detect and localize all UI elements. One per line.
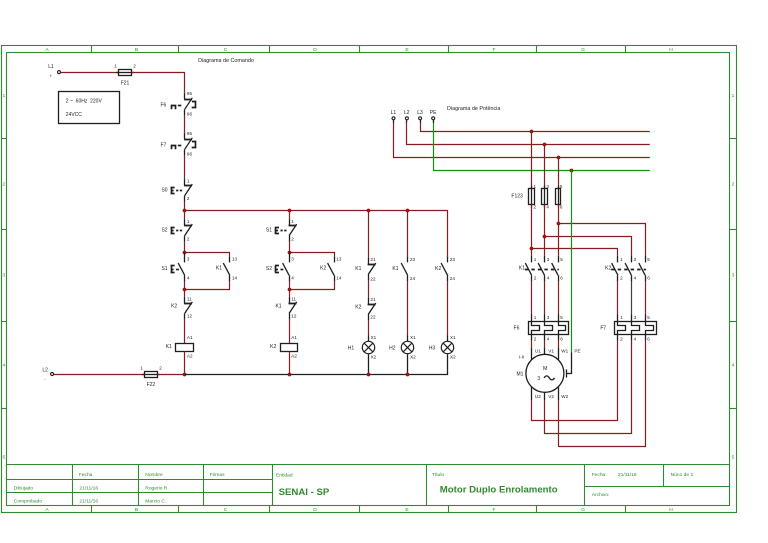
contact K2 13-14 xyxy=(320,256,342,281)
section title: Diagrama de Potencia xyxy=(447,106,500,112)
svg-text:1: 1 xyxy=(114,64,117,69)
wire parallel top xyxy=(185,253,230,257)
svg-text:Dibujado: Dibujado xyxy=(14,485,34,491)
svg-text:13: 13 xyxy=(232,257,238,262)
junction S1/K1-14 bottom xyxy=(183,288,187,292)
svg-text:F21: F21 xyxy=(121,80,130,86)
svg-text:5: 5 xyxy=(647,315,650,320)
contact K1 21-22 (NC) xyxy=(355,257,376,282)
contactor K2 poles 1-6 xyxy=(605,256,650,282)
junction bus/H2-branch xyxy=(406,209,410,213)
wire parallel bottom xyxy=(185,282,230,290)
svg-text:A2: A2 xyxy=(291,353,297,358)
junction fuse5/K2 branch xyxy=(557,222,561,226)
pushbutton S0 (NC) xyxy=(161,179,192,202)
svg-text:24: 24 xyxy=(450,276,456,281)
svg-text:3: 3 xyxy=(634,315,637,320)
svg-text:L1: L1 xyxy=(48,64,54,70)
wire W2 to F7 pin6 xyxy=(559,335,646,447)
svg-text:V1: V1 xyxy=(548,349,554,354)
svg-text:Entidad: Entidad xyxy=(276,472,293,478)
svg-text:5: 5 xyxy=(647,257,650,262)
svg-text:23: 23 xyxy=(450,257,456,262)
wire F21 to F6 xyxy=(132,73,185,93)
svg-text:S1: S1 xyxy=(266,227,272,233)
svg-text:X2: X2 xyxy=(450,354,456,359)
svg-text:Título: Título xyxy=(432,472,445,478)
svg-text:3: 3 xyxy=(291,257,294,262)
svg-text:12: 12 xyxy=(291,313,297,318)
wire bus to S2 xyxy=(184,210,186,219)
svg-text:K2: K2 xyxy=(320,266,326,272)
wire L2 to F22 xyxy=(54,374,144,376)
voltage info box xyxy=(59,92,120,124)
svg-text:K1: K1 xyxy=(166,344,172,350)
svg-text:3: 3 xyxy=(546,184,549,189)
wire rails to F123 xyxy=(532,131,559,189)
svg-text:3: 3 xyxy=(634,257,637,262)
svg-text:1: 1 xyxy=(534,315,537,320)
svg-text:1: 1 xyxy=(187,179,190,184)
terminal L2 xyxy=(42,367,53,382)
svg-text:L2: L2 xyxy=(42,367,48,373)
contact K1 11-12 (NC interlock) xyxy=(275,297,296,320)
svg-text:4: 4 xyxy=(547,337,550,342)
fuse block F123 xyxy=(511,184,563,210)
svg-text:V2: V2 xyxy=(548,394,554,399)
svg-text:1: 1 xyxy=(732,93,735,99)
junction L1/fuse5 xyxy=(557,156,561,160)
svg-text:I-II: I-II xyxy=(519,354,524,359)
wire H2 to rail xyxy=(407,354,409,374)
svg-text:K1: K1 xyxy=(355,266,361,272)
svg-text:21/11/16: 21/11/16 xyxy=(79,499,98,505)
svg-text:X2: X2 xyxy=(410,354,416,359)
wire K2-12 to coil K1 xyxy=(184,320,186,344)
wire L2 rail xyxy=(185,354,448,374)
svg-text:U2: U2 xyxy=(535,394,541,399)
svg-text:Fecha: Fecha xyxy=(79,472,93,478)
svg-text:1: 1 xyxy=(3,93,6,99)
svg-text:3: 3 xyxy=(187,257,190,262)
wire parallel top B xyxy=(289,253,334,257)
svg-text:96: 96 xyxy=(187,111,193,116)
svg-text:Fecha:: Fecha: xyxy=(592,472,607,478)
wire K2 to F7 xyxy=(618,282,646,322)
svg-text:W2: W2 xyxy=(561,394,568,399)
wire to lamp H1 xyxy=(368,321,370,342)
wire to K1 interlock xyxy=(289,290,291,297)
svg-text:K1: K1 xyxy=(519,266,525,272)
fuse F21 xyxy=(114,64,136,87)
svg-text:A1: A1 xyxy=(187,335,193,340)
svg-text:C: C xyxy=(224,507,228,513)
pushbutton S1 (NO) xyxy=(161,253,189,282)
svg-text:5: 5 xyxy=(732,455,735,461)
svg-text:X1: X1 xyxy=(410,335,416,340)
terminal PE xyxy=(430,110,437,123)
svg-text:G: G xyxy=(581,507,585,513)
pushbutton S2 (NC) xyxy=(161,219,192,242)
pushbutton S2 (NO) rung B xyxy=(266,253,294,282)
svg-text:2: 2 xyxy=(291,237,294,242)
svg-text:3: 3 xyxy=(537,376,540,382)
wire to lamp H3 xyxy=(447,282,449,342)
svg-text:PE: PE xyxy=(430,110,437,116)
wire L1 rail xyxy=(394,123,650,157)
svg-text:4: 4 xyxy=(291,275,294,280)
junction fuse3/K2 branch xyxy=(543,235,547,239)
svg-text:2: 2 xyxy=(3,182,6,188)
junction rail/H2 xyxy=(406,373,410,377)
junction bus/K1-rung xyxy=(183,209,187,213)
svg-text:1: 1 xyxy=(140,366,143,371)
fuse F22 xyxy=(140,366,162,389)
svg-text:U1: U1 xyxy=(535,349,541,354)
svg-text:6: 6 xyxy=(647,276,650,281)
svg-text:95: 95 xyxy=(187,91,193,96)
junction S2/K2-13 top xyxy=(288,251,292,255)
svg-text:96: 96 xyxy=(187,151,193,156)
wire bus to S1b xyxy=(289,210,291,219)
wire motor U2 V2 W2 down xyxy=(532,387,569,401)
svg-text:D: D xyxy=(313,47,317,53)
svg-text:2: 2 xyxy=(620,337,623,342)
svg-text:Marcio C.: Marcio C. xyxy=(145,499,166,505)
svg-text:1: 1 xyxy=(187,219,190,224)
svg-text:Archivo:: Archivo: xyxy=(592,492,610,498)
junction bus/H1-branch xyxy=(367,209,371,213)
svg-text:D: D xyxy=(313,507,317,513)
svg-text:6: 6 xyxy=(560,337,563,342)
wire H1 to rail xyxy=(368,354,370,374)
svg-text:1: 1 xyxy=(534,184,537,189)
wire K1-12 to coil K2 xyxy=(289,320,291,344)
svg-text:4: 4 xyxy=(3,363,6,369)
svg-text:5: 5 xyxy=(560,184,563,189)
wire to K2 pin1 xyxy=(532,249,618,256)
svg-text:13: 13 xyxy=(336,257,342,262)
svg-text:S2: S2 xyxy=(161,227,167,233)
svg-text:2 ~ 60Hz 220V: 2 ~ 60Hz 220V xyxy=(66,99,103,105)
wire to K2 pin5 xyxy=(558,224,646,256)
wire fuse5 down xyxy=(558,205,560,256)
svg-text:24VCC: 24VCC xyxy=(66,112,83,118)
coil K2 xyxy=(270,335,297,359)
svg-text:4: 4 xyxy=(546,204,549,209)
svg-text:M: M xyxy=(543,366,548,372)
svg-text:3: 3 xyxy=(732,273,735,279)
lamp H1 xyxy=(348,335,377,359)
section title: Diagrama de Comando xyxy=(198,58,254,64)
svg-text:Comprobado: Comprobado xyxy=(14,499,43,505)
wire U2 to F7 pin2 xyxy=(532,335,618,421)
svg-text:1: 1 xyxy=(534,257,537,262)
svg-text:F: F xyxy=(493,507,496,513)
svg-text:23: 23 xyxy=(410,257,416,262)
svg-text:L2: L2 xyxy=(404,110,410,116)
wire F7 to S0 xyxy=(184,156,186,180)
wire bus to H1 contacts xyxy=(368,210,370,258)
svg-text:1: 1 xyxy=(291,219,294,224)
svg-text:B: B xyxy=(135,47,138,53)
junction fuse1/K2 branch xyxy=(530,247,534,251)
svg-text:Diagrama de Comando: Diagrama de Comando xyxy=(198,58,254,64)
wire fuse3 down xyxy=(544,205,546,256)
svg-text:5: 5 xyxy=(560,315,563,320)
svg-text:X2: X2 xyxy=(371,354,377,359)
svg-text:2: 2 xyxy=(534,204,537,209)
svg-text:K2: K2 xyxy=(171,304,177,310)
svg-text:1: 1 xyxy=(620,315,623,320)
coil K1 xyxy=(166,335,194,359)
overload aux contact F6 (95-96) xyxy=(160,91,195,116)
svg-text:H: H xyxy=(669,507,673,513)
svg-text:H2: H2 xyxy=(389,346,396,352)
lamp H2 xyxy=(389,335,416,359)
svg-text:2: 2 xyxy=(732,182,735,188)
terminal L2 (power) xyxy=(404,110,410,123)
svg-text:A2: A2 xyxy=(187,353,193,358)
junction S1/K1-13 top xyxy=(183,251,187,255)
svg-text:3: 3 xyxy=(547,257,550,262)
motor M1 xyxy=(516,354,563,392)
contact K1 23-24 (NO) xyxy=(392,256,415,281)
svg-text:F6: F6 xyxy=(514,325,520,331)
svg-text:PE: PE xyxy=(574,349,580,354)
svg-text:3: 3 xyxy=(547,315,550,320)
svg-text:L3: L3 xyxy=(417,110,423,116)
thermal overload F7 xyxy=(600,315,656,342)
svg-text:3: 3 xyxy=(3,273,6,279)
svg-text:6: 6 xyxy=(560,276,563,281)
wire fuse1 down xyxy=(531,205,533,256)
wire F6 to motor U1 V1 W1 xyxy=(532,335,569,360)
wire F6 to F7 xyxy=(184,116,186,133)
svg-text:6: 6 xyxy=(560,204,563,209)
svg-text:4: 4 xyxy=(634,276,637,281)
svg-text:X1: X1 xyxy=(371,335,377,340)
overload aux contact F7 (95-96) xyxy=(160,131,195,156)
wire PE rail xyxy=(434,123,650,170)
svg-text:4: 4 xyxy=(732,363,735,369)
svg-text:1: 1 xyxy=(620,257,623,262)
svg-text:W1: W1 xyxy=(561,349,568,354)
svg-text:2: 2 xyxy=(534,276,537,281)
wire S2 to node xyxy=(184,242,186,253)
svg-text:X1: X1 xyxy=(450,335,456,340)
terminal L1 xyxy=(48,64,60,79)
svg-text:K2: K2 xyxy=(605,266,611,272)
svg-text:C: C xyxy=(224,47,228,53)
svg-text:11: 11 xyxy=(187,297,192,302)
svg-text:21/11/16: 21/11/16 xyxy=(618,472,637,478)
svg-text:S0: S0 xyxy=(161,188,167,194)
svg-text:22: 22 xyxy=(370,315,376,320)
wire K1 to F6 xyxy=(532,282,559,322)
svg-text:21: 21 xyxy=(370,297,376,302)
wire L2 rail xyxy=(407,123,650,144)
junction rail/H1 xyxy=(367,373,371,377)
wire to K2 interlock xyxy=(184,290,186,297)
terminal L1 (power) xyxy=(391,110,397,123)
svg-text:2: 2 xyxy=(159,366,162,371)
svg-text:Diagrama de Potência: Diagrama de Potência xyxy=(447,106,500,112)
contact K2 21-22 (NC) xyxy=(355,297,376,321)
wire between NC contacts xyxy=(368,281,370,298)
svg-text:21: 21 xyxy=(370,257,376,262)
svg-text:K1: K1 xyxy=(216,266,222,272)
wire coil K2 to L2 rail xyxy=(289,351,291,374)
svg-text:Nún1 de 1: Nún1 de 1 xyxy=(671,472,694,478)
junction L2/fuse3 xyxy=(543,143,547,147)
svg-text:5: 5 xyxy=(3,455,6,461)
wire coil K1 to L2 rail xyxy=(184,351,186,374)
svg-text:+: + xyxy=(50,74,53,79)
junction rail/K2 coil xyxy=(288,373,292,377)
svg-text:K2: K2 xyxy=(355,305,361,311)
svg-text:24: 24 xyxy=(410,276,416,281)
svg-text:K2: K2 xyxy=(435,266,441,272)
svg-text:Motor Duplo Enrolamento: Motor Duplo Enrolamento xyxy=(440,484,558,495)
svg-text:F: F xyxy=(493,47,496,53)
svg-text:F7: F7 xyxy=(600,325,606,331)
svg-text:H: H xyxy=(669,47,673,53)
svg-text:21/11/16: 21/11/16 xyxy=(79,485,98,491)
wire L1 to F21 xyxy=(61,72,119,74)
wire S0 to bus xyxy=(184,202,186,210)
wire control bus xyxy=(185,211,448,257)
svg-text:F123: F123 xyxy=(511,193,523,199)
svg-text:14: 14 xyxy=(336,275,342,280)
svg-text:12: 12 xyxy=(187,313,193,318)
svg-text:F22: F22 xyxy=(147,382,156,388)
wire L3 rail xyxy=(421,123,650,131)
svg-text:G: G xyxy=(581,47,585,53)
wire to K2 pin3 xyxy=(545,237,632,256)
svg-text:H3: H3 xyxy=(429,346,436,352)
svg-text:2: 2 xyxy=(187,237,190,242)
svg-text:Firmas: Firmas xyxy=(210,472,225,478)
PE wire to motor xyxy=(566,170,580,378)
svg-text:5: 5 xyxy=(560,257,563,262)
svg-text:Nombre: Nombre xyxy=(145,472,163,478)
wire F22 to junction xyxy=(157,374,184,376)
svg-text:4: 4 xyxy=(634,337,637,342)
wire parallel bottom B xyxy=(289,282,334,290)
svg-text:14: 14 xyxy=(232,275,238,280)
svg-text:11: 11 xyxy=(291,297,296,302)
svg-text:S2: S2 xyxy=(266,266,272,272)
svg-text:F6: F6 xyxy=(160,102,166,108)
svg-text:2: 2 xyxy=(133,64,136,69)
contact K2 11-12 (NC interlock) xyxy=(171,297,192,320)
svg-text:4: 4 xyxy=(547,276,550,281)
svg-text:95: 95 xyxy=(187,131,193,136)
svg-text:2: 2 xyxy=(187,196,190,201)
contact K2 23-24 (NO) xyxy=(435,256,455,281)
junction L3/fuse1 xyxy=(530,130,534,134)
wire S1b to node xyxy=(289,242,291,253)
svg-text:K1: K1 xyxy=(275,304,281,310)
svg-text:SENAI - SP: SENAI - SP xyxy=(279,487,330,498)
svg-text:6: 6 xyxy=(647,337,650,342)
svg-text:2: 2 xyxy=(534,337,537,342)
wire to lamp H2 xyxy=(407,282,409,342)
svg-text:K1: K1 xyxy=(392,266,398,272)
svg-text:H1: H1 xyxy=(348,346,355,352)
svg-text:B: B xyxy=(135,507,138,513)
terminal L3 (power) xyxy=(417,110,423,123)
svg-text:Rogerio R.: Rogerio R. xyxy=(145,485,168,491)
junction S2/K2-14 bottom xyxy=(288,288,292,292)
svg-text:M1: M1 xyxy=(516,372,523,378)
thermal overload F6 xyxy=(514,315,569,342)
pushbutton S1 (NC) rung B xyxy=(266,219,297,242)
svg-text:S1: S1 xyxy=(161,266,167,272)
junction rail/K1 coil xyxy=(183,373,187,377)
wire V2 to F7 pin4 xyxy=(545,335,632,434)
svg-text:22: 22 xyxy=(370,277,376,282)
junction PE drop xyxy=(570,169,574,173)
contactor K1 poles 1-6 xyxy=(519,256,563,282)
svg-text:A1: A1 xyxy=(291,335,297,340)
svg-text:F7: F7 xyxy=(160,142,166,148)
svg-text:2: 2 xyxy=(620,276,623,281)
junction bus/K2-rung xyxy=(288,209,292,213)
svg-text:4: 4 xyxy=(187,275,190,280)
svg-text:L1: L1 xyxy=(391,110,397,116)
wire bus to K1 23-24 xyxy=(407,210,409,256)
lamp H3 xyxy=(429,335,456,359)
svg-text:K2: K2 xyxy=(270,344,276,350)
contact K1 13-14 xyxy=(216,256,238,281)
